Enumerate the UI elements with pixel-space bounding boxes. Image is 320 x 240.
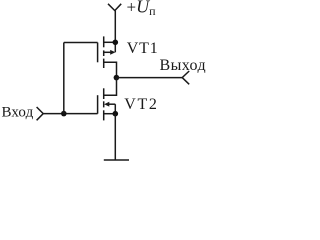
junction dot: input bus	[61, 111, 67, 117]
svg-text:Вход: Вход	[2, 105, 34, 121]
drain stub and wire up to output node	[104, 78, 117, 96]
wire: output node to output terminal	[116, 77, 182, 79]
substrate-to-source wire	[114, 42, 116, 52]
svg-text:VT1: VT1	[127, 40, 159, 57]
wire: input terminal to VT2 gate	[43, 113, 97, 115]
wire: gate bus vertical	[63, 43, 65, 114]
channel dash: drain side	[103, 88, 105, 99]
source stub	[104, 113, 116, 115]
terminal: output (fork)	[182, 71, 189, 84]
channel dash: drain side	[103, 36, 105, 47]
substrate arrow (points left, n-channel)	[104, 102, 109, 107]
drain stub and wire down to output node	[104, 62, 117, 77]
terminal: input (fork)	[37, 107, 44, 120]
gate electrode bar	[97, 95, 99, 114]
label +Un	[127, 0, 157, 18]
ground	[104, 159, 129, 161]
label VT2	[124, 96, 158, 113]
substrate stub	[104, 51, 112, 53]
junction dot: VT2 source / substrate / ground	[113, 111, 119, 117]
source stub (to +Un)	[104, 41, 116, 43]
channel dash: substrate (middle)	[103, 101, 105, 107]
wire: +Un terminal down to VT1 source	[114, 11, 116, 43]
substrate-to-source wire	[114, 104, 116, 114]
label Вход	[2, 105, 34, 121]
transistor VT2 (n-channel MOSFET)	[98, 78, 117, 121]
svg-text:+Uп: +Uп	[127, 0, 157, 18]
channel dash: source side	[103, 59, 105, 68]
svg-text:VT2: VT2	[124, 96, 158, 113]
label Выход	[160, 57, 207, 74]
wire: VT1 gate lead	[64, 42, 98, 44]
junction dot: VT1 source / substrate / +Un	[113, 40, 119, 46]
channel dash: source side	[103, 110, 105, 120]
transistor VT1 (p-channel MOSFET)	[98, 36, 117, 77]
svg-text:Выход: Выход	[160, 57, 207, 74]
substrate arrow (points right, p-channel)	[110, 50, 115, 55]
label VT1	[127, 40, 159, 57]
power terminal +Un (fork)	[108, 4, 121, 11]
wire: VT2 source down to ground	[114, 114, 116, 160]
node: output junction dot	[114, 75, 120, 81]
channel dash: substrate (middle)	[103, 50, 105, 56]
substrate stub	[109, 103, 116, 105]
gate electrode bar	[97, 43, 99, 63]
